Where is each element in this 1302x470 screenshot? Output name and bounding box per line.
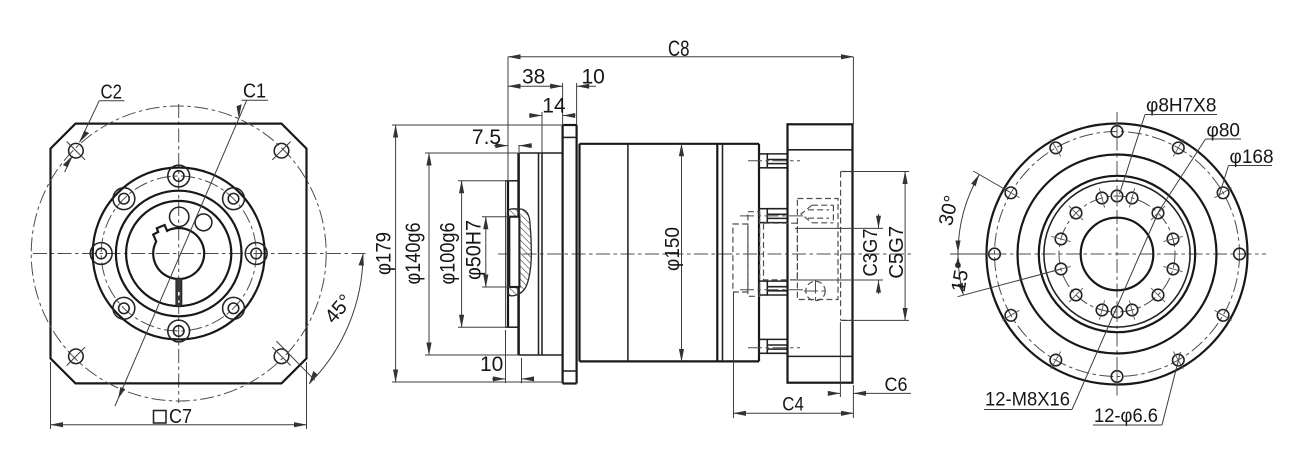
12 outer holes 6.6 bbox=[1234, 248, 1246, 260]
svg-text:C3G7: C3G7 bbox=[860, 229, 882, 277]
corner hole top-left bbox=[69, 143, 84, 158]
svg-text:C8: C8 bbox=[668, 36, 690, 61]
svg-text:12-M8X16: 12-M8X16 bbox=[985, 390, 1070, 411]
corner hole bottom-left bbox=[69, 349, 84, 364]
bolt centerlines bbox=[748, 160, 800, 162]
svg-text:14: 14 bbox=[542, 95, 566, 118]
svg-text:φ100g6: φ100g6 bbox=[437, 223, 460, 285]
dimension 14 bbox=[541, 112, 543, 153]
dimension 38 bbox=[562, 83, 564, 125]
svg-text:φ140g6: φ140g6 bbox=[402, 223, 425, 285]
svg-text:φ168: φ168 bbox=[1230, 147, 1274, 168]
8 flange bolts on bolt circle bbox=[168, 165, 190, 187]
inner bolt circle phi80 (dash-dot) bbox=[1059, 196, 1175, 312]
phi140g6 boss top/bottom edges bbox=[519, 152, 563, 154]
svg-text:C7: C7 bbox=[169, 406, 192, 428]
body ring groove lines bbox=[716, 144, 718, 362]
svg-text:10: 10 bbox=[480, 353, 503, 376]
center bore circle bbox=[1081, 218, 1154, 291]
15 degree dimension: radial line at 195 bbox=[958, 269, 1061, 297]
phi140g6 boss face (thick) bbox=[517, 153, 520, 355]
14 inner holes M8 / pin holes bbox=[1167, 233, 1179, 245]
30 degree arc bbox=[958, 175, 979, 255]
horizontal centerline bbox=[33, 253, 369, 255]
plate chamfer lines bbox=[563, 136, 577, 138]
dimension C3G7 bbox=[795, 227, 883, 229]
svg-text:C1: C1 bbox=[243, 81, 266, 103]
svg-text:45°: 45° bbox=[321, 290, 357, 327]
main axis centerline bbox=[498, 253, 912, 255]
hidden coupling bore (dashed) bbox=[733, 224, 748, 292]
output ring phi100g6 front face bbox=[505, 181, 507, 327]
svg-text:30°: 30° bbox=[935, 193, 963, 227]
dimension phi100g6 bbox=[458, 180, 509, 182]
bolt circle (dash-dot) bbox=[101, 176, 256, 331]
svg-text:15°: 15° bbox=[948, 260, 975, 294]
svg-text:10: 10 bbox=[582, 66, 605, 89]
svg-text:12-φ6.6: 12-φ6.6 bbox=[1094, 406, 1158, 427]
30 degree dimension: extension at 180 bbox=[950, 253, 995, 255]
dimension 7.5 bbox=[494, 145, 508, 147]
svg-text:C5G7: C5G7 bbox=[886, 226, 908, 279]
dimension C7 line bbox=[51, 424, 307, 426]
keyway slot at bottom of bore (filled) bbox=[176, 279, 182, 307]
gearbox body phi150 bbox=[578, 144, 580, 362]
svg-text:φ8H7X8: φ8H7X8 bbox=[1146, 96, 1216, 117]
output boss outer circle bbox=[93, 168, 265, 340]
inner hole radial ticks bbox=[1051, 186, 1182, 322]
phi50H7 bore void (white window with thick edges) bbox=[509, 217, 519, 287]
flange plate (square plate seen from side) bbox=[561, 125, 563, 384]
inner ring inner circle bbox=[1044, 181, 1190, 327]
flange ring inner circle bbox=[116, 191, 242, 317]
inner ring outer circle bbox=[1039, 176, 1195, 332]
svg-text:φ50H7: φ50H7 bbox=[462, 220, 485, 280]
outer hole radial ticks bbox=[1002, 122, 1231, 387]
dimension C7: extension lines bbox=[50, 362, 52, 429]
phi100g6 ring top/bottom edges bbox=[506, 180, 519, 182]
corner-hole pitch circle (dash-dot) bbox=[31, 106, 326, 401]
svg-text:C4: C4 bbox=[782, 395, 804, 416]
dimension C4 bbox=[733, 292, 735, 418]
45-degree radial line through corner hole bbox=[276, 341, 314, 380]
outer flange circle bbox=[987, 124, 1248, 385]
hidden clamp screw (dashed, top) bbox=[801, 205, 833, 223]
hub circle bbox=[126, 201, 231, 306]
hidden coupling hub wide section (dashed) bbox=[748, 212, 760, 297]
dimension C5G7 bbox=[843, 171, 909, 173]
input side bolts between body and flange bbox=[759, 154, 788, 168]
svg-text:7.5: 7.5 bbox=[472, 126, 501, 149]
outer bolt circle (dash-dot) bbox=[995, 132, 1240, 377]
input flange block bbox=[788, 124, 853, 382]
dimension phi179 bbox=[392, 124, 564, 126]
hidden coupling housing (dashed) bbox=[797, 199, 838, 300]
pin hole right (on hub) bbox=[195, 214, 212, 231]
body joint line bbox=[627, 144, 629, 362]
corner hole bottom-right bbox=[274, 349, 289, 364]
pin hole upper (on hub) bbox=[170, 207, 189, 226]
corner hole top-right bbox=[274, 143, 289, 158]
label square-C7 bbox=[154, 411, 167, 424]
30 degree dimension: radial extension at 150 bbox=[973, 171, 1009, 192]
svg-text:φ179: φ179 bbox=[373, 232, 396, 275]
dimension phi50H7 bbox=[482, 216, 510, 218]
phi150 dimension line inside body bbox=[681, 144, 683, 362]
output shaft bore sleeve section (hatched) bbox=[508, 209, 532, 296]
hidden motor spigot recess (dashed) bbox=[840, 172, 842, 321]
dimension phi140g6 bbox=[425, 152, 520, 154]
hidden coupling sleeve (dashed) bbox=[764, 223, 798, 280]
45-degree dimension arc bbox=[309, 254, 363, 384]
center bore with keyway notch tab at upper-left bbox=[153, 225, 204, 279]
flange ring circle bbox=[1018, 155, 1217, 354]
svg-text:φ80: φ80 bbox=[1207, 121, 1240, 142]
dimension 10 bbox=[576, 83, 578, 125]
vertical centerline bbox=[178, 104, 180, 403]
dimension 10 (bottom) bbox=[505, 330, 507, 383]
dimension C6 bbox=[839, 322, 841, 397]
C1 leader line through pin hole bbox=[115, 100, 247, 406]
svg-text:φ150: φ150 bbox=[662, 227, 684, 271]
hidden clamp screw hole (dashed circle, bottom) bbox=[806, 281, 825, 300]
horizontal centerline bbox=[968, 253, 1266, 255]
dimension C8 bbox=[507, 57, 509, 180]
vertical centerline bbox=[1116, 112, 1118, 398]
step division lines before flange plate bbox=[538, 153, 540, 355]
mounting plate outline (chamfered square) bbox=[51, 124, 307, 384]
15 degree arc bbox=[958, 254, 963, 295]
svg-text:38: 38 bbox=[522, 66, 545, 89]
C2 leader with arrows across corner hole bbox=[80, 101, 100, 143]
svg-text:C2: C2 bbox=[101, 82, 123, 104]
svg-text:C6: C6 bbox=[885, 375, 908, 396]
